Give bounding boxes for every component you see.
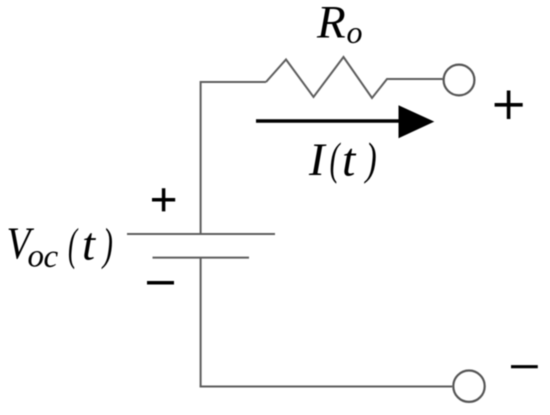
svg-text:o: o xyxy=(347,14,363,50)
wire top horizontal from node to resistor xyxy=(201,81,266,83)
resistor Ro zigzag body xyxy=(266,57,443,98)
svg-text:c: c xyxy=(44,239,59,275)
terminal circle positive (open circuit) xyxy=(444,65,475,96)
terminal minus sign (right bottom) xyxy=(511,365,538,368)
svg-text:): ) xyxy=(101,221,113,270)
battery minus sign xyxy=(147,281,174,285)
terminal plus sign (right top) xyxy=(495,91,523,120)
svg-text:): ) xyxy=(364,134,377,184)
battery V1 negative plate xyxy=(153,257,250,259)
current arrow I(t) head xyxy=(399,105,435,138)
wire left vertical upper (top node to battery + plate) xyxy=(200,81,202,234)
svg-text:t: t xyxy=(82,219,96,271)
wire left vertical lower (battery - plate to bottom node) xyxy=(200,258,202,387)
svg-text:R: R xyxy=(316,0,346,48)
terminal circle negative (open circuit) xyxy=(453,371,484,402)
svg-text:(: ( xyxy=(68,221,79,271)
svg-text:(: ( xyxy=(330,135,342,185)
svg-text:I: I xyxy=(308,134,327,186)
svg-text:o: o xyxy=(28,239,45,275)
wire bottom horizontal to negative terminal xyxy=(200,386,453,388)
svg-text:t: t xyxy=(342,134,357,187)
current arrow I(t) shaft xyxy=(256,119,402,123)
battery V1 positive plate xyxy=(127,233,275,235)
battery plus sign xyxy=(152,188,175,211)
